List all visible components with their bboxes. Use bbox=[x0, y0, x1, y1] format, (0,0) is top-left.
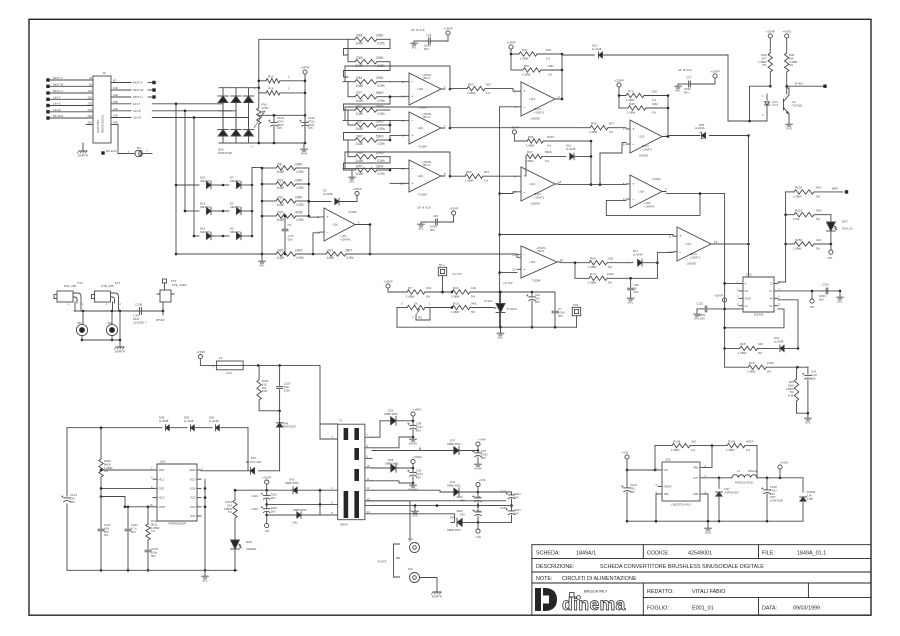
svg-text:5%: 5% bbox=[816, 194, 821, 198]
power flag +15VP near DG409 bbox=[714, 294, 743, 311]
svg-text:32K4: 32K4 bbox=[376, 164, 384, 168]
svg-text:1.6BW: 1.6BW bbox=[588, 281, 597, 285]
capacitor C163 bbox=[299, 115, 315, 143]
svg-text:50V: 50V bbox=[430, 228, 435, 232]
resistor R26 bbox=[262, 248, 313, 260]
svg-text:/VP: /VP bbox=[828, 256, 833, 260]
capacitor C110 bbox=[252, 504, 278, 516]
svg-text:J3: J3 bbox=[102, 71, 106, 75]
svg-text:10K0: 10K0 bbox=[295, 248, 303, 252]
svg-text:5%: 5% bbox=[426, 294, 431, 298]
svg-text:50V: 50V bbox=[558, 314, 563, 318]
title block grid bbox=[532, 545, 871, 616]
resistor R219 bbox=[784, 209, 831, 222]
diode grid left rail wire bbox=[175, 184, 276, 256]
svg-text:TL084: TL084 bbox=[418, 192, 427, 196]
svg-text:+15VP: +15VP bbox=[443, 27, 452, 31]
power flag -VSI bbox=[475, 522, 481, 538]
svg-text:1.6BW: 1.6BW bbox=[525, 159, 534, 163]
svg-text:16Z: 16Z bbox=[88, 96, 93, 100]
shunt regulator TL431 bbox=[484, 291, 518, 328]
input pad LIN-R bbox=[46, 108, 93, 114]
svg-text:30K6: 30K6 bbox=[376, 104, 384, 108]
capacitor C108 bbox=[478, 506, 521, 523]
svg-text:M036: M036 bbox=[340, 523, 348, 527]
svg-text:VIN: VIN bbox=[664, 468, 668, 472]
op-amp U10 TL082 second half bbox=[623, 175, 667, 208]
svg-text:28Z: 28Z bbox=[88, 114, 93, 118]
svg-text:C119: C119 bbox=[252, 494, 259, 498]
ground 0PL below ladder1 bbox=[259, 259, 266, 267]
svg-text:8PL/1: 8PL/1 bbox=[537, 249, 544, 253]
socket J22 bbox=[106, 311, 117, 341]
resistor R19 bbox=[451, 286, 501, 299]
resistor R193 bbox=[712, 439, 757, 452]
svg-text:65V: 65V bbox=[630, 490, 635, 494]
svg-text:C121: C121 bbox=[500, 490, 507, 494]
svg-text:RCH110-331K: RCH110-331K bbox=[735, 481, 753, 485]
svg-text:LL4148: LL4148 bbox=[592, 47, 602, 51]
title block row3 texts bbox=[536, 576, 637, 582]
svg-text:PY431: PY431 bbox=[484, 299, 492, 303]
svg-text:59K0: 59K0 bbox=[376, 134, 384, 138]
svg-text:+VPW: +VPW bbox=[301, 66, 310, 70]
resistor R10 bbox=[451, 291, 494, 314]
svg-text:30D: 30D bbox=[113, 121, 118, 125]
svg-text:FOGLIO:: FOGLIO: bbox=[647, 606, 669, 612]
svg-text:DS8: DS8 bbox=[246, 540, 252, 544]
svg-text:59K0: 59K0 bbox=[376, 91, 384, 95]
svg-text:10K: 10K bbox=[652, 89, 657, 93]
svg-text:6K7: 6K7 bbox=[486, 82, 492, 86]
wire F1 to transformer bbox=[320, 365, 338, 424]
svg-text:C37: C37 bbox=[686, 76, 692, 80]
wire DG409 S input bbox=[725, 244, 749, 283]
svg-text:1%: 1% bbox=[546, 56, 551, 60]
svg-text:EARTH: EARTH bbox=[78, 154, 88, 158]
capacitor C37 CF di U13 bbox=[675, 68, 715, 94]
svg-text:RF-EX2: RF-EX2 bbox=[106, 149, 117, 153]
svg-text:R48: R48 bbox=[629, 102, 635, 106]
resistor R18 100K bbox=[725, 348, 808, 373]
resistor R96 bbox=[526, 135, 591, 148]
svg-text:R218: R218 bbox=[795, 186, 803, 190]
capacitor C97 bbox=[472, 449, 487, 462]
power flag +15VP above R96 bbox=[510, 126, 527, 141]
svg-text:1%: 1% bbox=[547, 143, 552, 147]
svg-text:C118: C118 bbox=[474, 495, 481, 499]
connector J3 pin 30D stub bbox=[111, 121, 118, 125]
svg-text:LM339: LM339 bbox=[531, 116, 541, 120]
svg-text:35V: 35V bbox=[271, 496, 276, 500]
capacitor C159 bbox=[145, 547, 158, 572]
ground 0PL below ladder2 bbox=[349, 175, 356, 183]
svg-text:1.6BW: 1.6BW bbox=[627, 110, 636, 114]
svg-text:5%: 5% bbox=[789, 63, 794, 67]
svg-text:CLASSE Y: CLASSE Y bbox=[133, 320, 147, 324]
svg-text:0VS: 0VS bbox=[786, 126, 792, 130]
svg-text:1/4W: 1/4W bbox=[356, 112, 363, 116]
svg-text:0PL: 0PL bbox=[805, 420, 811, 424]
wire -V winding line with D41 bbox=[267, 508, 320, 515]
svg-text:DG409: DG409 bbox=[754, 313, 764, 317]
ground 0PL left of C132 bbox=[694, 309, 701, 321]
svg-text:F1A: F1A bbox=[226, 371, 232, 375]
svg-text:50V: 50V bbox=[424, 47, 429, 51]
ladder2 loop rectangles bbox=[344, 39, 391, 170]
svg-text:FL079: FL079 bbox=[378, 560, 387, 564]
svg-text:C9: C9 bbox=[288, 223, 292, 227]
svg-text:R96: R96 bbox=[528, 135, 534, 139]
svg-text:NC1: NC1 bbox=[159, 477, 165, 481]
resistor R50 6K7 bbox=[450, 170, 527, 183]
svg-text:FTE_342D: FTE_342D bbox=[172, 283, 187, 287]
svg-text:U13: U13 bbox=[530, 182, 536, 186]
svg-text:E001_01: E001_01 bbox=[692, 606, 714, 612]
wire VIPER VDD bbox=[100, 469, 153, 472]
svg-text:RF-EX1: RF-EX1 bbox=[53, 114, 64, 118]
svg-text:SM4007: SM4007 bbox=[200, 179, 211, 183]
resistor R8 bbox=[262, 162, 309, 174]
resistor R37 bbox=[519, 48, 562, 61]
resistor R38 vertical bbox=[785, 53, 798, 94]
wire T1 pin13 to J19 bbox=[372, 501, 410, 541]
svg-text:+: + bbox=[253, 86, 256, 91]
svg-text:560K: 560K bbox=[545, 150, 552, 154]
svg-text:L1: L1 bbox=[737, 469, 741, 473]
diode D43 SMBYW02 bbox=[372, 480, 479, 496]
svg-text:R57: R57 bbox=[524, 64, 530, 68]
svg-text:SMBYW02: SMBYW02 bbox=[293, 508, 307, 512]
op-amp U16 TL084 section 1 bbox=[402, 73, 446, 109]
svg-text:1%: 1% bbox=[545, 159, 550, 163]
filter FT2 FTE_342D bbox=[157, 279, 187, 311]
svg-text:+15VP:2: +15VP:2 bbox=[534, 195, 545, 199]
connector J3 output LIN-S bbox=[111, 107, 141, 113]
svg-text:5%: 5% bbox=[762, 63, 767, 67]
svg-text:0PL: 0PL bbox=[349, 179, 355, 183]
power flag +15VP at C119 bbox=[262, 476, 271, 492]
svg-text:R74: R74 bbox=[590, 272, 596, 276]
svg-text:6K34: 6K34 bbox=[746, 439, 753, 443]
wire +6,74V node bbox=[500, 273, 517, 285]
svg-text:R26: R26 bbox=[278, 248, 284, 252]
svg-text:1.6BW: 1.6BW bbox=[738, 351, 747, 355]
svg-text:IN: IN bbox=[770, 296, 773, 300]
bridge rectifier D55 SKD25-08 bbox=[218, 86, 305, 155]
svg-text:+15VP:2: +15VP:2 bbox=[690, 255, 701, 259]
svg-text:SC3: SC3 bbox=[190, 496, 196, 500]
svg-text:0.5%: 0.5% bbox=[297, 170, 304, 174]
svg-text:+VS/5: +VS/5 bbox=[780, 461, 789, 465]
svg-text:R16: R16 bbox=[268, 87, 274, 91]
svg-text:50V: 50V bbox=[151, 554, 156, 558]
svg-text:R62: R62 bbox=[357, 119, 363, 123]
svg-text:OSC: OSC bbox=[159, 487, 165, 491]
svg-text:100K: 100K bbox=[607, 272, 614, 276]
svg-text:275V: 275V bbox=[262, 106, 269, 110]
wire D13 net to optocoupler cathode bbox=[728, 55, 767, 121]
resistor R24 vertical bbox=[758, 53, 772, 87]
svg-text:DRN: DRN bbox=[189, 468, 195, 472]
svg-text:09061153033: 09061153033 bbox=[101, 115, 105, 133]
diode D57 BYVGT-100 bbox=[246, 456, 261, 474]
resistor R48 bbox=[618, 94, 668, 114]
svg-text:65V: 65V bbox=[416, 475, 421, 479]
filter FL079 bracket bbox=[378, 544, 400, 577]
svg-text:C132: C132 bbox=[696, 302, 703, 306]
svg-text:1.6BW: 1.6BW bbox=[451, 310, 460, 314]
svg-text:U73: U73 bbox=[746, 273, 752, 277]
svg-text:CF di U13: CF di U13 bbox=[678, 68, 692, 72]
svg-text:SC4: SC4 bbox=[190, 487, 196, 491]
svg-text:1.6BW: 1.6BW bbox=[793, 246, 802, 250]
resistor R21 bbox=[262, 195, 309, 207]
connector J3 output MOT-U bbox=[111, 93, 156, 99]
capacitor C98 bbox=[407, 421, 422, 439]
svg-text:C110: C110 bbox=[252, 507, 259, 511]
diode D3 LL4148 bbox=[309, 189, 357, 205]
svg-text:14: 14 bbox=[560, 258, 564, 262]
resistor R47 560K bbox=[525, 150, 566, 176]
diode D7 SM4007 bbox=[223, 176, 253, 189]
op-amp U16 TL084 section 3 bbox=[400, 160, 446, 196]
svg-text:1/4W: 1/4W bbox=[277, 203, 284, 207]
svg-text:SMBYW02: SMBYW02 bbox=[447, 483, 461, 487]
svg-text:1%: 1% bbox=[484, 179, 489, 183]
svg-text:0.5%: 0.5% bbox=[378, 99, 385, 103]
wire VIPER left rail bbox=[67, 426, 102, 570]
svg-text:LL4148: LL4148 bbox=[209, 419, 219, 423]
wire R66 row to bridge DC bus bbox=[258, 39, 349, 82]
svg-text:8PL/2: 8PL/2 bbox=[534, 107, 541, 111]
svg-text:C26: C26 bbox=[433, 214, 439, 218]
svg-text:VDD: VDD bbox=[159, 468, 165, 472]
svg-text:+15VP: +15VP bbox=[383, 280, 392, 284]
svg-text:R47: R47 bbox=[527, 150, 533, 154]
svg-text:+VPA: +VPA bbox=[340, 234, 347, 238]
capacitor C38 CF di U15 bbox=[411, 28, 448, 51]
svg-text:+15VP: +15VP bbox=[262, 476, 271, 480]
resistor R82 bbox=[348, 134, 390, 146]
diode D5 SM4007 bbox=[223, 227, 253, 240]
svg-text:TP2: TP2 bbox=[573, 303, 579, 307]
svg-text:8PL/1: 8PL/1 bbox=[423, 115, 430, 119]
svg-text:+15VP: +15VP bbox=[714, 294, 723, 298]
svg-text:VITALI FABIO: VITALI FABIO bbox=[692, 589, 725, 595]
power flag +VS/5 at L1 bbox=[778, 461, 789, 478]
IC U62 VIPER100SP bbox=[150, 460, 204, 526]
fuse F1 bbox=[213, 356, 320, 375]
svg-text:R66: R66 bbox=[357, 34, 363, 38]
svg-text:25V: 25V bbox=[634, 290, 639, 294]
wire LIN-T to bridge bbox=[152, 103, 219, 186]
svg-text:1/4W: 1/4W bbox=[277, 186, 284, 190]
capacitor C104 bbox=[456, 506, 481, 523]
svg-text:65V: 65V bbox=[514, 511, 519, 515]
svg-text:1%: 1% bbox=[151, 529, 156, 533]
resistor R195 vertical power bbox=[257, 365, 281, 412]
svg-text:0.5%: 0.5% bbox=[347, 256, 354, 260]
resistor R61 bbox=[348, 76, 390, 88]
svg-text:+15VP/9: +15VP/9 bbox=[644, 204, 655, 208]
ground 0VMW bbox=[372, 481, 418, 492]
svg-text:5%: 5% bbox=[228, 510, 233, 514]
svg-text:2K0: 2K0 bbox=[691, 439, 697, 443]
svg-text:0PL: 0PL bbox=[628, 300, 634, 304]
wire J3 row 30D / RF-EX2 vertical bbox=[118, 125, 125, 154]
connector J3 body bbox=[93, 71, 111, 143]
wire DG409 IN to R28 network bbox=[778, 300, 799, 350]
svg-text:SCHEDA CONVERTITORE BRUSHLESS: SCHEDA CONVERTITORE BRUSHLESS SINUSOIDAL… bbox=[600, 564, 764, 570]
svg-text:8PL/1: 8PL/1 bbox=[423, 163, 430, 167]
svg-text:100: 100 bbox=[758, 342, 763, 346]
svg-text:TL431C: TL431C bbox=[507, 307, 519, 311]
svg-text:R49: R49 bbox=[591, 122, 597, 126]
wire U10 output to R21 bbox=[355, 223, 371, 254]
resistor R49 6K7 bbox=[580, 122, 626, 135]
capacitor C133 bbox=[259, 114, 305, 144]
resistor R7 bbox=[406, 286, 452, 299]
svg-text:EARTH: EARTH bbox=[432, 595, 442, 599]
capacitor C10 bbox=[501, 291, 541, 329]
svg-text:LIN-T: LIN-T bbox=[53, 95, 61, 99]
svg-text:R21: R21 bbox=[328, 248, 334, 252]
diode D29 SMBYW02 bbox=[380, 409, 414, 438]
svg-text:1/4W: 1/4W bbox=[356, 127, 363, 131]
svg-text:LL4148: LL4148 bbox=[774, 339, 784, 343]
svg-text:0PL: 0PL bbox=[202, 578, 208, 582]
label 0PVW at FT2 bbox=[156, 311, 165, 322]
svg-text:14D: 14D bbox=[113, 93, 118, 97]
op-amp U13 comparator B LM339 bbox=[514, 167, 562, 205]
svg-text:1%: 1% bbox=[486, 91, 491, 95]
svg-text:−: − bbox=[251, 144, 254, 149]
resistor R16 bbox=[259, 87, 305, 96]
input pad MOT-U bbox=[46, 89, 93, 95]
resistor R20 bbox=[262, 210, 309, 222]
filter FT4 FTE_345 bbox=[92, 281, 122, 311]
trimmer R9 1K bbox=[397, 301, 452, 327]
svg-text:24Z: 24Z bbox=[88, 108, 93, 112]
svg-text:TL082: TL082 bbox=[652, 177, 661, 181]
filter FT3 FTE_345 bbox=[54, 281, 84, 311]
svg-text:+15VP: +15VP bbox=[710, 70, 719, 74]
svg-text:1.6BW: 1.6BW bbox=[671, 448, 680, 452]
svg-text:1.6BW: 1.6BW bbox=[467, 91, 476, 95]
svg-text:SKD25-08: SKD25-08 bbox=[218, 151, 232, 155]
wire VIPER OSC bbox=[100, 487, 153, 490]
svg-text:14: 14 bbox=[558, 180, 562, 184]
svg-text:SM4007: SM4007 bbox=[200, 205, 211, 209]
svg-text:U55: U55 bbox=[665, 458, 671, 462]
svg-text:TL084: TL084 bbox=[418, 144, 427, 148]
svg-text:1/4W: 1/4W bbox=[356, 159, 363, 163]
svg-text:DESCRIZIONE:: DESCRIZIONE: bbox=[536, 564, 574, 570]
svg-text:65V: 65V bbox=[481, 456, 486, 460]
svg-text:C193: C193 bbox=[822, 283, 829, 287]
svg-text:TP-1: TP-1 bbox=[438, 263, 445, 267]
power flag -VP below C110 bbox=[264, 515, 269, 533]
svg-text:S: S bbox=[745, 282, 747, 286]
LED D57 GIALLO bbox=[827, 215, 854, 244]
svg-text:LIN-R: LIN-R bbox=[133, 116, 142, 120]
diode D17 LL4148 bbox=[628, 249, 673, 278]
svg-text:1/4W: 1/4W bbox=[356, 142, 363, 146]
svg-text:CIRCUITI DI ALIMENTAZIONE: CIRCUITI DI ALIMENTAZIONE bbox=[562, 576, 637, 582]
svg-text:6K7: 6K7 bbox=[609, 122, 615, 126]
capacitor C169 bbox=[761, 478, 783, 523]
svg-text:35V: 35V bbox=[460, 513, 465, 517]
svg-text:NC: NC bbox=[745, 289, 749, 293]
svg-text:22D: 22D bbox=[113, 107, 118, 111]
wire R193 tap bbox=[756, 446, 758, 478]
svg-text:9K9: 9K9 bbox=[816, 209, 822, 213]
resistor R28 100 bbox=[723, 342, 778, 355]
diode D42 SMBYW02 bbox=[285, 478, 299, 494]
svg-text:200K: 200K bbox=[376, 56, 384, 60]
svg-text:1%: 1% bbox=[746, 448, 751, 452]
svg-text:R8: R8 bbox=[278, 162, 282, 166]
power flag +VSI bbox=[476, 478, 486, 492]
svg-text:35V: 35V bbox=[271, 509, 276, 513]
svg-text:0PL: 0PL bbox=[259, 263, 265, 267]
svg-text:1/4W: 1/4W bbox=[277, 218, 284, 222]
svg-text:R193: R193 bbox=[728, 439, 736, 443]
capacitor C20 bbox=[797, 367, 817, 414]
svg-text:100K: 100K bbox=[767, 361, 774, 365]
svg-text:1.6BW: 1.6BW bbox=[520, 56, 529, 60]
wire U13-c pin6 bbox=[600, 143, 626, 185]
ladder1 right rail bbox=[308, 168, 311, 217]
svg-text:F1: F1 bbox=[219, 356, 223, 360]
svg-text:LM339: LM339 bbox=[687, 261, 697, 265]
connector J3 output MOT-V bbox=[111, 79, 156, 85]
svg-text:LIN-S: LIN-S bbox=[133, 109, 141, 113]
socket J19 bbox=[408, 537, 420, 553]
svg-text:REDATTO:: REDATTO: bbox=[647, 589, 674, 595]
wire U13-d output to vertical bbox=[715, 243, 750, 246]
svg-text:10%: 10% bbox=[262, 389, 268, 393]
svg-text:R194: R194 bbox=[673, 439, 681, 443]
svg-text:SM4007: SM4007 bbox=[230, 205, 241, 209]
diode D41 SMBYW02 bbox=[293, 512, 302, 525]
ground 0VMU bbox=[372, 437, 417, 448]
svg-text:R19: R19 bbox=[453, 286, 459, 290]
svg-text:TL084: TL084 bbox=[532, 278, 541, 282]
power flag /VP below D57 bbox=[828, 244, 833, 260]
svg-text:MOT-V: MOT-V bbox=[133, 81, 143, 85]
svg-text:0PL: 0PL bbox=[411, 45, 417, 49]
svg-text:R82: R82 bbox=[357, 134, 363, 138]
diode D20 SM4007 bbox=[176, 176, 224, 189]
svg-text:65V: 65V bbox=[514, 495, 519, 499]
svg-text:TAB: TAB bbox=[664, 492, 669, 496]
svg-text:0.5%: 0.5% bbox=[297, 203, 304, 207]
IC U55 LM2575S-ADJ bbox=[656, 458, 707, 507]
svg-text:C38: C38 bbox=[426, 34, 432, 38]
power flag +15VP near D3 bbox=[352, 187, 361, 201]
svg-text:1849A/1: 1849A/1 bbox=[576, 551, 596, 557]
svg-text:CF di U15: CF di U15 bbox=[411, 28, 425, 32]
svg-text:8Z: 8Z bbox=[89, 83, 92, 87]
svg-text:8PL/2: 8PL/2 bbox=[642, 144, 649, 148]
svg-text:TL082: TL082 bbox=[348, 210, 357, 214]
svg-text:13K: 13K bbox=[816, 238, 821, 242]
title block redatto/foglio/data texts bbox=[647, 589, 820, 612]
svg-text:0PL: 0PL bbox=[498, 335, 504, 339]
svg-text:LL4148: LL4148 bbox=[159, 419, 169, 423]
